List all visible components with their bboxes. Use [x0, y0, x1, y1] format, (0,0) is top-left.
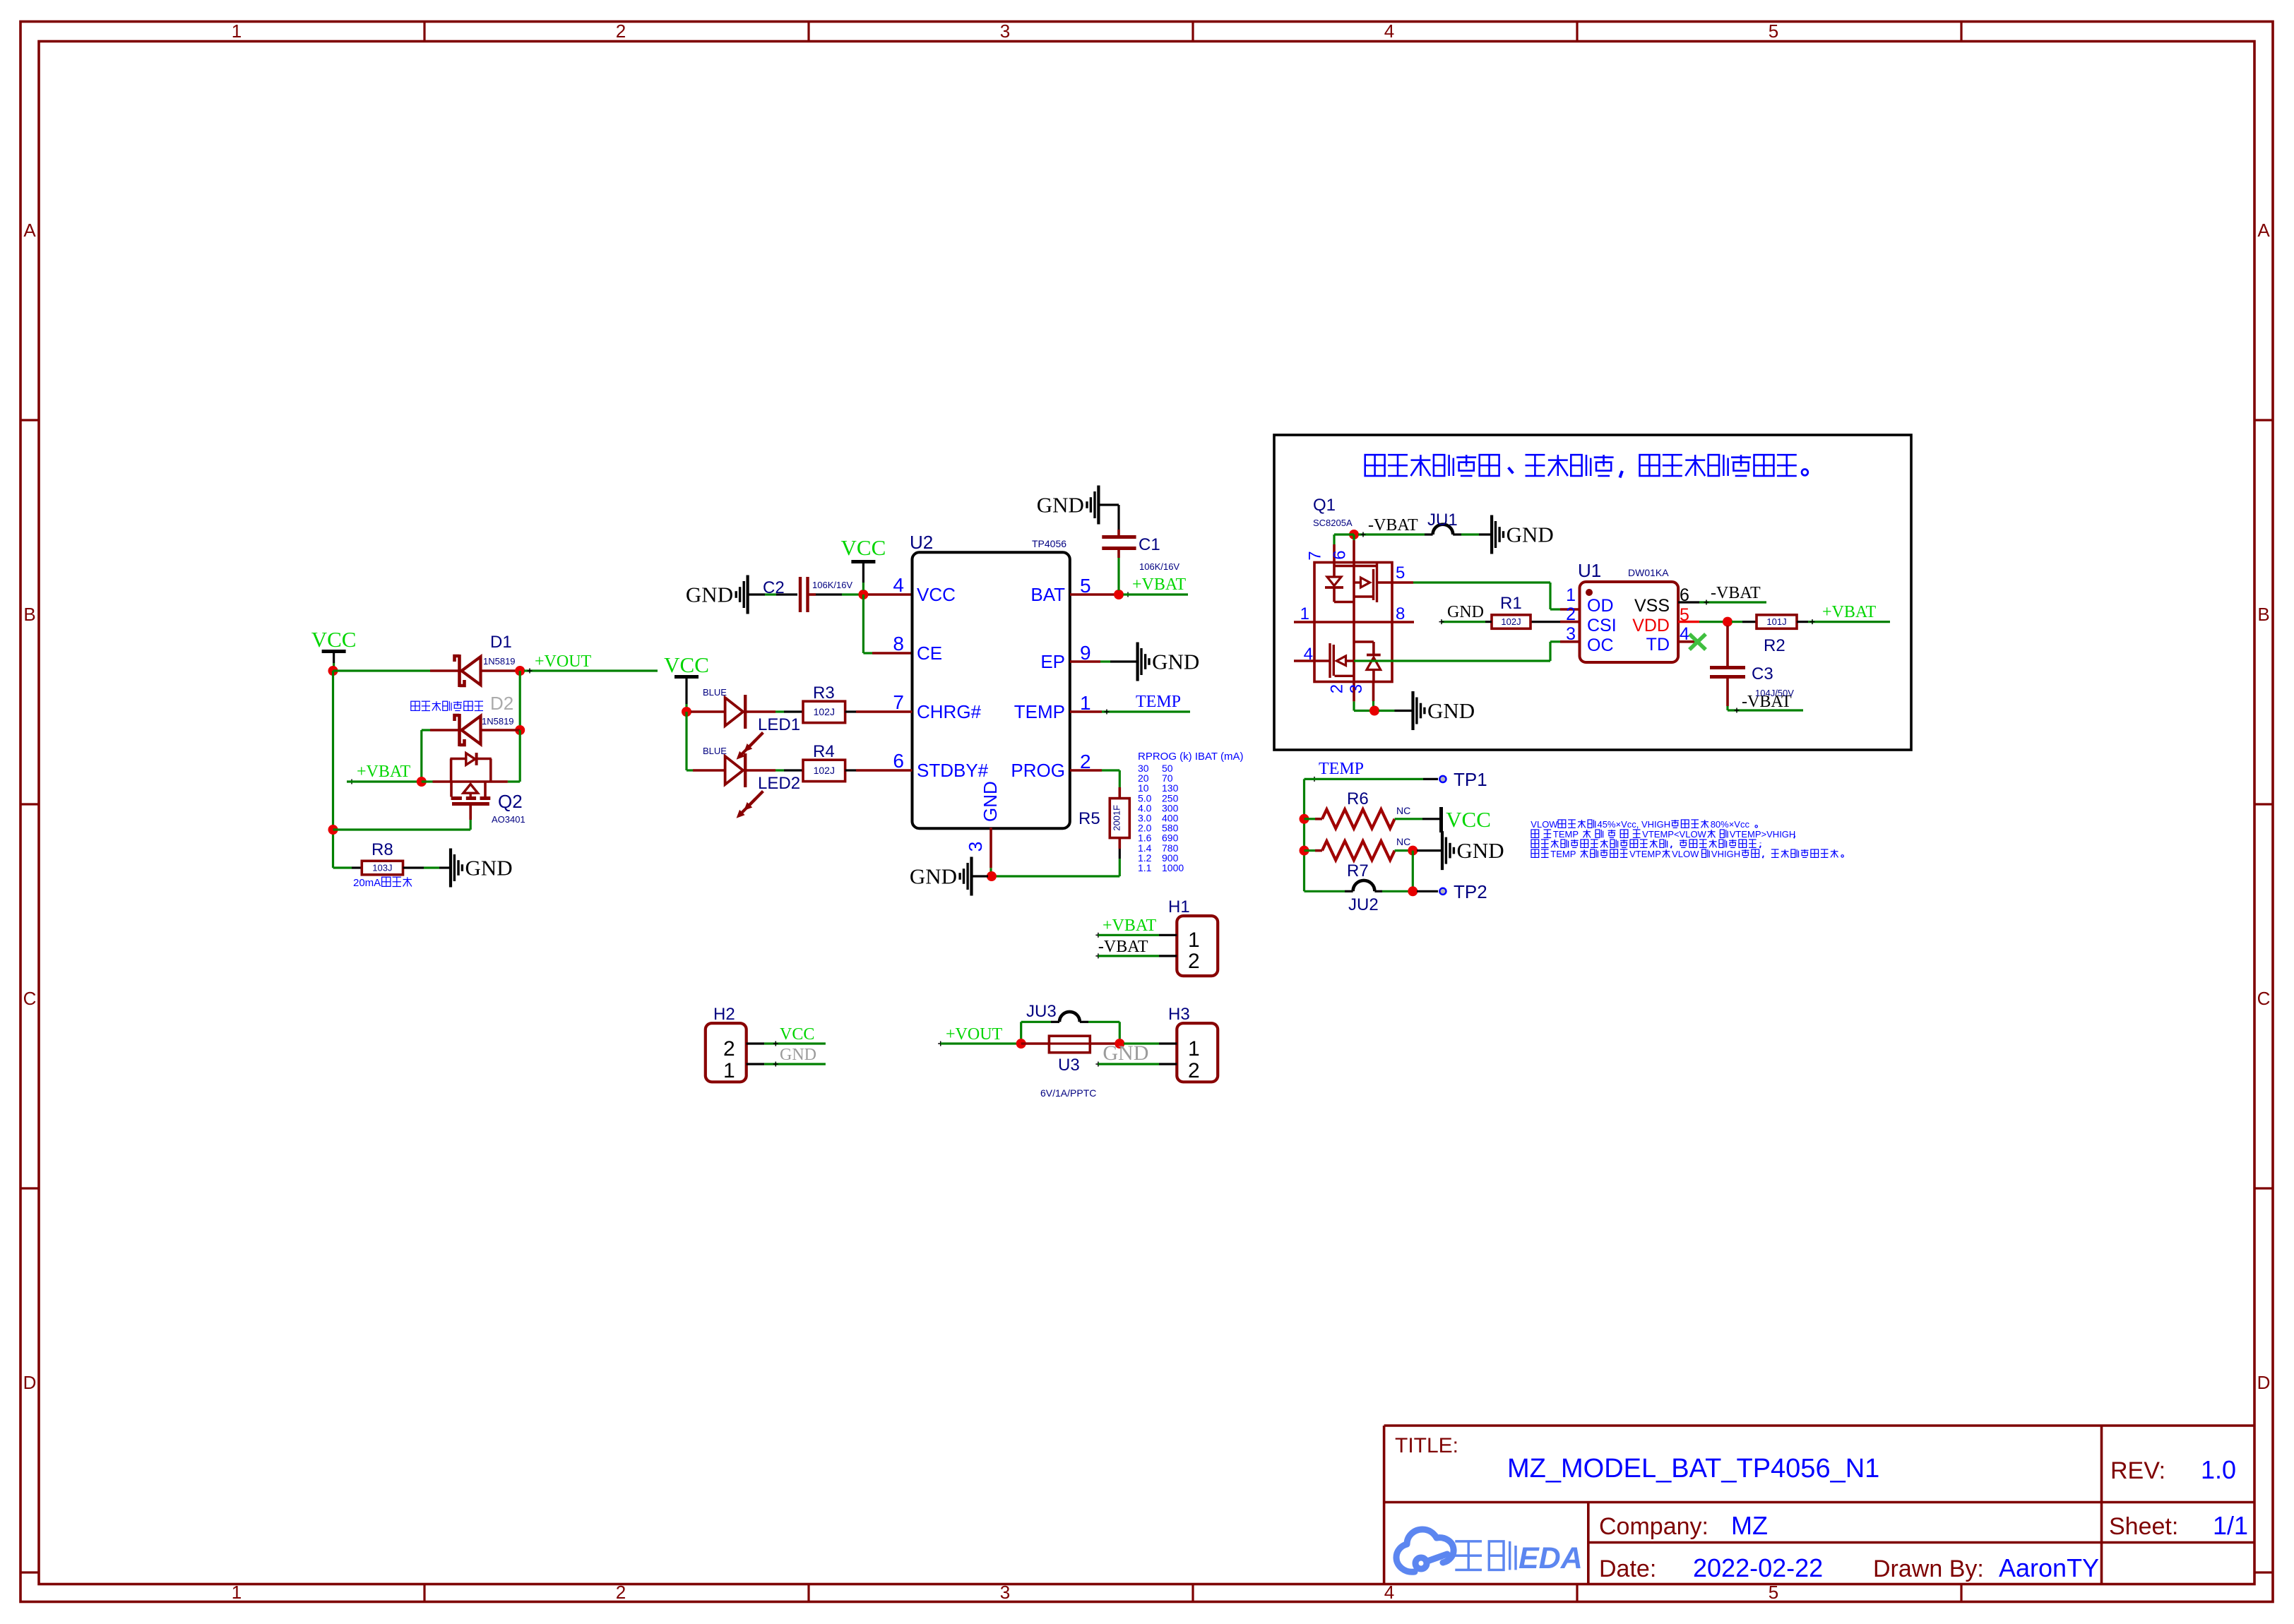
svg-text:AO3401: AO3401 [492, 814, 525, 825]
svg-text:C: C [2257, 988, 2271, 1009]
svg-text:SC8205A: SC8205A [1313, 518, 1353, 528]
svg-text:+VBAT: +VBAT [1822, 603, 1877, 621]
svg-text:TEMP: TEMP [1550, 849, 1576, 859]
svg-text:GND: GND [465, 856, 513, 880]
svg-text:D2: D2 [490, 693, 513, 714]
svg-text:U2: U2 [910, 532, 933, 553]
svg-text:BAT: BAT [1030, 584, 1065, 605]
svg-text:6: 6 [893, 750, 904, 772]
svg-text:2001F: 2001F [1111, 805, 1122, 831]
svg-text:1.1: 1.1 [1138, 862, 1152, 873]
svg-text:EP: EP [1040, 651, 1065, 672]
svg-text:R8: R8 [372, 840, 393, 859]
svg-text:1: 1 [1300, 604, 1309, 623]
svg-text:TEMP: TEMP [1014, 701, 1065, 722]
svg-text:GND: GND [686, 583, 733, 607]
svg-text:2022-02-22: 2022-02-22 [1693, 1553, 1823, 1582]
svg-text:BLUE: BLUE [703, 746, 727, 756]
svg-text:H1: H1 [1168, 897, 1190, 917]
svg-text:2: 2 [1328, 684, 1347, 693]
svg-text:6: 6 [1331, 550, 1350, 559]
svg-text:GND: GND [1457, 838, 1504, 863]
svg-text:MZ_MODEL_BAT_TP4056_N1: MZ_MODEL_BAT_TP4056_N1 [1507, 1454, 1879, 1483]
svg-text:4: 4 [1384, 1582, 1394, 1603]
svg-text:Q2: Q2 [498, 791, 523, 812]
svg-text:JU1: JU1 [1427, 511, 1458, 530]
svg-text:1000: 1000 [1162, 862, 1184, 873]
svg-text:1: 1 [1188, 1037, 1200, 1061]
svg-text:6V/1A/PPTC: 6V/1A/PPTC [1040, 1087, 1096, 1099]
svg-text:GND: GND [1037, 493, 1084, 518]
svg-text:+VBAT: +VBAT [1103, 917, 1157, 935]
svg-text:D: D [23, 1372, 37, 1393]
svg-text:5: 5 [1769, 1582, 1778, 1603]
svg-text:TEMP: TEMP [1136, 693, 1181, 711]
svg-text:GND: GND [980, 781, 1001, 822]
svg-text:101J: 101J [1766, 616, 1786, 627]
svg-text:NC: NC [1396, 836, 1410, 847]
svg-text:CSI: CSI [1587, 616, 1617, 635]
svg-text:9: 9 [1080, 642, 1091, 664]
svg-text:TD: TD [1646, 635, 1670, 655]
svg-text:1: 1 [1188, 929, 1200, 952]
svg-text:TITLE:: TITLE: [1395, 1434, 1458, 1457]
svg-text:CHRG#: CHRG# [917, 701, 982, 722]
svg-text:AaronTY: AaronTY [1999, 1553, 2099, 1582]
svg-text:REV:: REV: [2110, 1457, 2165, 1484]
svg-text:BLUE: BLUE [703, 687, 727, 698]
svg-text:STDBY#: STDBY# [917, 760, 989, 781]
svg-text:R7: R7 [1347, 861, 1369, 880]
svg-text:20mA: 20mA [353, 877, 381, 889]
svg-text:RPROG (k) IBAT (mA): RPROG (k) IBAT (mA) [1138, 751, 1243, 763]
svg-text:VHIGH: VHIGH [1711, 849, 1740, 859]
svg-text:TP1: TP1 [1454, 769, 1487, 790]
svg-text:R1: R1 [1500, 594, 1522, 613]
svg-text:-VBAT: -VBAT [1098, 938, 1148, 956]
svg-text:GND: GND [910, 864, 957, 889]
svg-text:2: 2 [616, 1582, 626, 1603]
svg-text:LED1: LED1 [758, 715, 800, 734]
svg-text:106K/16V: 106K/16V [812, 580, 852, 590]
svg-text:+VOUT: +VOUT [535, 652, 592, 671]
svg-text:+VBAT: +VBAT [1132, 575, 1187, 594]
svg-text:Q1: Q1 [1313, 496, 1336, 515]
svg-text:B: B [23, 604, 35, 625]
svg-text:C2: C2 [763, 578, 785, 597]
svg-text:106K/16V: 106K/16V [1139, 561, 1179, 572]
svg-text:VLOW: VLOW [1672, 849, 1699, 859]
svg-text:VCC: VCC [780, 1025, 814, 1044]
svg-text:NC: NC [1396, 805, 1410, 816]
svg-text:VLOW: VLOW [1531, 819, 1558, 830]
svg-text:1: 1 [1080, 692, 1091, 714]
svg-text:VDD: VDD [1632, 616, 1670, 635]
svg-text:102J: 102J [814, 765, 835, 776]
svg-text:1: 1 [232, 1582, 242, 1603]
svg-text:Sheet:: Sheet: [2109, 1513, 2178, 1540]
svg-text:1: 1 [232, 20, 242, 42]
svg-text:Company:: Company: [1599, 1513, 1708, 1540]
svg-text:VCC: VCC [841, 535, 886, 560]
svg-text:A: A [23, 220, 36, 241]
svg-text:TEMP: TEMP [1553, 829, 1579, 840]
svg-text:2: 2 [1188, 1059, 1200, 1082]
svg-text:3: 3 [965, 842, 986, 852]
svg-text:EDA: EDA [1519, 1541, 1583, 1575]
svg-text:VSS: VSS [1634, 596, 1670, 616]
svg-text:LED2: LED2 [758, 774, 800, 793]
svg-text:CE: CE [917, 643, 942, 664]
svg-text:102J: 102J [1501, 616, 1521, 627]
svg-text:R6: R6 [1347, 789, 1369, 808]
svg-text:1: 1 [1566, 585, 1576, 605]
svg-text:JU2: JU2 [1348, 895, 1379, 914]
svg-text:4: 4 [893, 574, 904, 596]
svg-text:1N5819: 1N5819 [482, 716, 514, 727]
svg-text:VCC: VCC [917, 584, 956, 605]
svg-text:A: A [2257, 220, 2270, 241]
svg-text:7: 7 [893, 691, 904, 713]
svg-text:2: 2 [616, 20, 626, 42]
svg-text:TP4056: TP4056 [1032, 538, 1066, 549]
svg-text:3: 3 [1000, 1582, 1010, 1603]
svg-text:VTEMP<VLOW: VTEMP<VLOW [1642, 829, 1706, 840]
svg-text:5: 5 [1769, 20, 1778, 42]
svg-text:4: 4 [1384, 20, 1394, 42]
svg-text:TEMP: TEMP [1319, 760, 1364, 778]
svg-text:U3: U3 [1058, 1056, 1080, 1075]
svg-text:R5: R5 [1078, 809, 1100, 828]
svg-text:U1: U1 [1578, 560, 1601, 581]
svg-text:2: 2 [1080, 751, 1091, 772]
svg-text:+VBAT: +VBAT [357, 763, 411, 781]
svg-text:+VOUT: +VOUT [946, 1025, 1003, 1044]
svg-text:2: 2 [1188, 950, 1200, 973]
svg-text:R3: R3 [813, 683, 835, 703]
svg-text:1: 1 [723, 1059, 735, 1082]
svg-text:4: 4 [1304, 645, 1313, 664]
svg-text:Drawn By:: Drawn By: [1873, 1556, 1984, 1582]
svg-text:GND: GND [1427, 698, 1475, 723]
svg-text:Date:: Date: [1599, 1556, 1656, 1582]
svg-text:DW01KA: DW01KA [1628, 567, 1669, 578]
svg-text:GND: GND [1152, 650, 1199, 674]
svg-text:-VBAT: -VBAT [1711, 584, 1761, 602]
svg-text:7: 7 [1306, 551, 1325, 560]
svg-text:C3: C3 [1752, 664, 1773, 683]
svg-text:VCC: VCC [1446, 807, 1491, 832]
svg-text:MZ: MZ [1731, 1511, 1768, 1540]
svg-text:8: 8 [1396, 604, 1405, 623]
svg-text:3: 3 [1000, 20, 1010, 42]
svg-text:VTEMP: VTEMP [1629, 849, 1661, 859]
svg-text:PROG: PROG [1011, 760, 1065, 781]
svg-text:VCC: VCC [311, 627, 357, 652]
svg-text:C: C [23, 988, 37, 1009]
svg-text:H2: H2 [713, 1005, 735, 1024]
svg-text:R4: R4 [813, 742, 835, 761]
svg-text:OD: OD [1587, 596, 1614, 616]
svg-text:D1: D1 [490, 633, 512, 652]
svg-text:GND: GND [1103, 1041, 1148, 1065]
svg-text:GND: GND [780, 1046, 816, 1064]
svg-text:B: B [2257, 604, 2269, 625]
svg-text:1N5819: 1N5819 [483, 656, 516, 667]
svg-text:1/1: 1/1 [2213, 1511, 2248, 1540]
svg-text:D: D [2257, 1372, 2271, 1393]
svg-text:GND: GND [1506, 523, 1554, 547]
svg-text:80%×Vcc: 80%×Vcc [1711, 819, 1750, 830]
svg-text:OC: OC [1587, 635, 1614, 655]
svg-text:5: 5 [1396, 563, 1405, 583]
svg-text:2: 2 [723, 1037, 735, 1061]
svg-text:45%×Vcc, VHIGH: 45%×Vcc, VHIGH [1597, 819, 1670, 830]
svg-text:3: 3 [1347, 684, 1366, 693]
svg-text:103J: 103J [372, 863, 392, 873]
svg-text:VCC: VCC [664, 652, 709, 677]
svg-text:H3: H3 [1168, 1005, 1190, 1024]
svg-text:JU3: JU3 [1026, 1002, 1057, 1021]
svg-text:8: 8 [893, 633, 904, 655]
svg-text:R2: R2 [1764, 636, 1785, 655]
svg-text:VTEMP>VHIGH: VTEMP>VHIGH [1730, 829, 1796, 840]
svg-text:102J: 102J [814, 706, 835, 717]
svg-text:104J/50V: 104J/50V [1755, 688, 1794, 698]
svg-text:TP2: TP2 [1454, 881, 1487, 902]
svg-text:1.0: 1.0 [2201, 1455, 2236, 1484]
svg-text:GND: GND [1447, 603, 1484, 621]
svg-text:-VBAT: -VBAT [1368, 516, 1418, 535]
svg-text:5: 5 [1080, 575, 1091, 597]
svg-text:C1: C1 [1139, 535, 1160, 554]
